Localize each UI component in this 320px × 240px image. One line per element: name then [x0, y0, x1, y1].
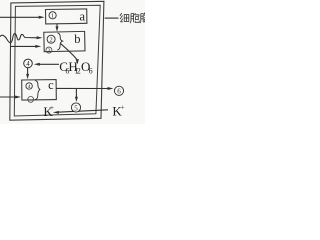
circled 4: [24, 59, 33, 68]
svg-text:4: 4: [28, 84, 31, 90]
K+ transport line: [58, 110, 109, 112]
arrow from box c right to circled 6: [56, 87, 109, 89]
C6H12O6: [59, 59, 92, 75]
svg-text:b: b: [74, 32, 80, 46]
circled 5: [71, 103, 80, 112]
胞: [130, 14, 134, 24]
curved arrow from box b to C6H12O6: [60, 43, 77, 60]
brace in box c: [35, 81, 40, 100]
branch arrow down to circled 5: [75, 88, 77, 98]
wavy arrow into box b: [0, 34, 39, 43]
circled 1: [49, 12, 56, 19]
膜 (partially cut at right edge): [140, 14, 143, 24]
svg-text:2: 2: [49, 37, 52, 44]
arrow from C6H12O6 to circled 4: [34, 63, 40, 66]
K+ outside: [112, 103, 124, 118]
svg-text:1: 1: [51, 13, 54, 20]
svg-text:12: 12: [75, 66, 81, 75]
svg-text:+: +: [50, 104, 54, 112]
label line to 细胞膜: [105, 17, 119, 19]
arrow from box a to box b: [56, 24, 58, 28]
svg-text:c: c: [48, 78, 54, 92]
box c: [22, 80, 57, 100]
svg-text:6: 6: [89, 66, 93, 75]
arrow from outside left into box c: [0, 96, 17, 98]
arrow 1 into box a: [0, 16, 40, 18]
box a: [46, 9, 87, 24]
lower arrow into box b: [11, 45, 38, 47]
cell membrane outer line: [10, 1, 104, 120]
svg-text:6: 6: [117, 88, 121, 96]
cell membrane inner line: [14, 5, 100, 116]
svg-text:4: 4: [26, 61, 30, 68]
K+ inside: [43, 104, 54, 119]
circled 6: [114, 86, 123, 95]
svg-text:+: +: [121, 103, 125, 111]
svg-text:3: 3: [48, 48, 51, 54]
circled 5 at box c bottom: [28, 97, 34, 103]
svg-text:5: 5: [74, 104, 78, 112]
brace in box b: [57, 33, 62, 50]
细: [120, 13, 123, 22]
box b: [44, 31, 85, 51]
circled 3 at box b bottom: [46, 47, 52, 53]
circled 2: [47, 35, 55, 43]
circled 4 in box c: [26, 83, 32, 89]
label 细胞膜 (drawn strokes): [120, 13, 145, 24]
svg-text:a: a: [80, 9, 86, 23]
arrow from circled 4 down to box c: [27, 68, 29, 75]
